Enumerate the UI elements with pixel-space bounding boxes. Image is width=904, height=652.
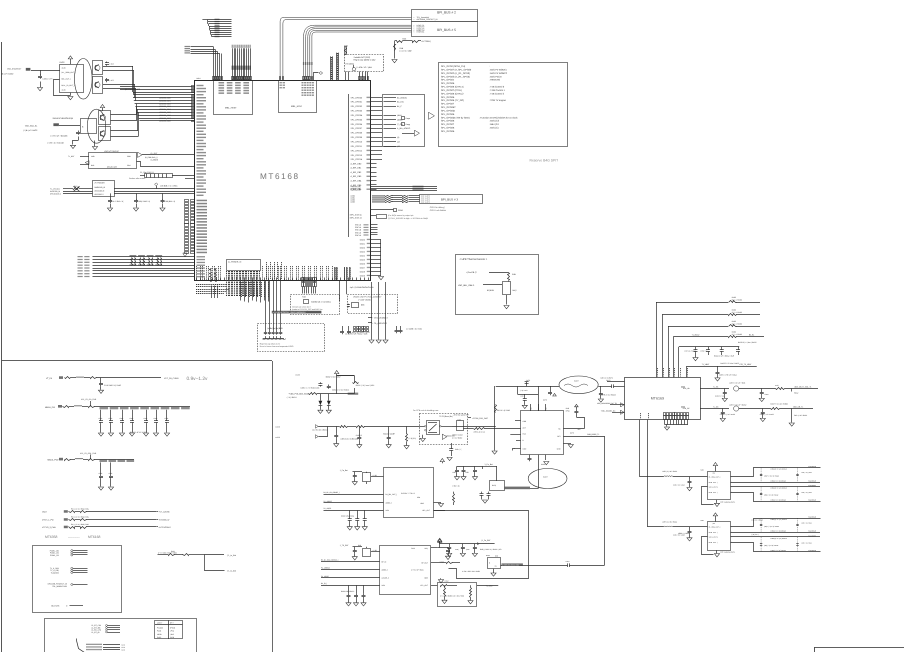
svg-text:B4G2 B ( 4 ( dxn ( B4G2: B4G2 B ( 4 ( dxn ( B4G2 <box>738 341 756 344</box>
svg-text:SPL_GPG0 (SPS4_CH(: SPL_GPG0 (SPS4_CH( <box>441 65 465 68</box>
svg-text:B4_CN): B4_CN) <box>397 101 404 104</box>
svg-text:SPL_GPG02: SPL_GPG02 <box>351 105 363 108</box>
svg-text:: T4B Control 2: : T4B Control 2 <box>489 92 505 95</box>
svg-text:VT_PA: VT_PA <box>46 377 53 380</box>
svg-text:For PCB end of shielding case: For PCB end of shielding case <box>413 409 439 412</box>
svg-text:SRCLA: SRCLA <box>355 234 362 237</box>
svg-text:L4B? ( / (2 / pF / B4G: L4B? ( / (2 / pF / B4G <box>729 381 746 384</box>
svg-text:+ VCC_AVDBA-2: + VCC_AVDBA-2 <box>372 316 388 319</box>
svg-text:GBG7: GBG7 <box>360 266 365 269</box>
svg-text:G4G?: G4G? <box>543 476 548 479</box>
svg-text:GBG1: GBG1 <box>360 242 365 245</box>
svg-text:TL_GB: TL_GB <box>713 405 719 408</box>
svg-text:wddd: wddd <box>275 436 280 439</box>
svg-text:SPL_GPG11: SPL_GPG11 <box>351 145 363 148</box>
svg-text:GAB_BGB2_TL: GAB_BGB2_TL <box>587 433 599 436</box>
svg-text:MMRGVB_W: MMRGVB_W <box>95 186 106 189</box>
svg-text:SPL_GPG04: SPL_GPG04 <box>441 79 455 82</box>
svg-text:BF3: BF3 <box>557 435 560 438</box>
svg-text:C4B( B60 / 4(: C4B( B60 / 4( <box>165 200 176 203</box>
svg-text:VTCXO_2_PMU: VTCXO_2_PMU <box>42 526 57 529</box>
svg-text:C4.6 / B60 / 4(: C4.6 / B60 / 4( <box>112 200 124 203</box>
svg-text:ANTENNA_CONTACT_IN: ANTENNA_CONTACT_IN <box>417 18 439 21</box>
svg-text:4Y4_YG_GBL_GVB: 4Y4_YG_GBL_GVB <box>80 452 97 455</box>
svg-text:R4G2: R4G2 <box>60 61 65 64</box>
svg-text:<: < <box>413 18 414 21</box>
svg-text:( / B4 / 4C: ( / B4 / 4C <box>452 485 460 488</box>
svg-text:MT6169: MT6169 <box>651 397 664 401</box>
svg-text:A_BPI_GB4: A_BPI_GB4 <box>351 180 363 183</box>
svg-text:G4G?: G4G? <box>574 380 579 383</box>
svg-text:A.GGB_B4_BG4_GG2: A.GGB_B4_BG4_GG2 <box>502 563 519 566</box>
svg-text:C4B ( / ( / 4 / B4G2 (4G: C4B ( / ( / 4 / B4G2 (4G <box>301 386 320 389</box>
svg-text:: B4G (C3: : B4G (C3 <box>489 120 500 123</box>
svg-text:B4 4.7L 4F 4C 4 TGF: B4 4.7L 4F 4C 4 TGF <box>130 431 148 434</box>
svg-text:B(AL_) B_OUT_): B(AL_) B_OUT_) <box>62 84 75 87</box>
svg-text:( 1_tx_bat: ( 1_tx_bat <box>227 569 236 572</box>
svg-text:AVDDGB_M: AVDDGB_M <box>95 190 105 193</box>
svg-text:B4G2 ( / 4( / (4G2: B4G2 ( / 4( / (4G2 <box>326 376 341 379</box>
svg-text:SPL_GPG0? (A_SPL_GPG60: SPL_GPG0? (A_SPL_GPG60 <box>441 68 472 71</box>
svg-text:BPI_BUS # 2: BPI_BUS # 2 <box>437 10 456 14</box>
svg-text:SPL_GPG0?: SPL_GPG0? <box>441 123 455 126</box>
svg-text:A_BPI_GB3: A_BPI_GB3 <box>351 175 363 178</box>
svg-text:LCBGB0_GB5: LCBGB0_GB5 <box>159 111 171 114</box>
svg-text:C4GB(2: C4GB(2 <box>356 434 362 437</box>
svg-text:M4(?: M4(? <box>513 289 517 292</box>
svg-text:SPL_GPG05: SPL_GPG05 <box>351 118 363 121</box>
svg-text:-NEW_4( 04 )-4: -NEW_4( 04 )-4 <box>473 430 485 433</box>
svg-text:MT6168: MT6168 <box>260 172 300 181</box>
svg-text:1_Fa_Bat: 1_Fa_Bat <box>485 463 494 466</box>
svg-text:(42: (42 <box>397 145 400 148</box>
svg-text:-----------: ----------- <box>68 535 80 539</box>
svg-text:SPL_GPG0B: SPL_GPG0B <box>441 82 455 85</box>
svg-text:Regrta cap (4GB( to (4Q: Regrta cap (4GB( to (4Q <box>354 58 376 61</box>
svg-text:POWL_CB: POWL_CB <box>50 554 60 557</box>
svg-text:GBA_GB_TL_B4L_TL: GBA_GB_TL_B4L_TL <box>794 385 811 388</box>
svg-text:SPL_GPG0B: SPL_GPG0B <box>441 120 455 123</box>
svg-text:GBG8: GBG8 <box>360 270 365 273</box>
svg-text:MBGA_PW: MBGA_PW <box>45 406 55 409</box>
svg-text:TL_HB: TL_HB <box>713 385 719 388</box>
svg-text:MTCXOCM-2: MTCXOCM-2 <box>50 192 61 195</box>
svg-text:Here to have clear and separat: Here to have clear and separated GND <box>260 345 294 348</box>
svg-text:B4G(: B4G( <box>492 484 496 487</box>
svg-text:4 / 4 / 4bn B4B2 (.(2 / 4bn /: 4 / 4 / 4bn B4B2 (.(2 / 4bn / B4G <box>440 594 465 597</box>
svg-text:4Y4_YG_GA_GVB: 4Y4_YG_GA_GVB <box>81 398 97 401</box>
svg-text:: Reserved: : Reserved <box>489 79 501 82</box>
svg-text:(B / pF / B4G2: (B / pF / B4G2 <box>1 73 13 76</box>
svg-text:: T4B Control 0: : T4B Control 0 <box>489 86 505 89</box>
svg-text:+CTRM_PVB_OWT: +CTRM_PVB_OWT <box>472 417 489 420</box>
svg-text:(* LDO VGGB): (* LDO VGGB) <box>358 298 371 301</box>
svg-text:+(CxxGB-(?: +(CxxGB-(? <box>466 271 478 274</box>
svg-text:MTKDBG4PORTAL_GBKR_BBGBKR4: MTKDBG4PORTAL_GBKR_BBGBKR4 <box>273 311 306 314</box>
svg-text:TBL_MWBVGYB2: TBL_MWBVGYB2 <box>52 585 67 588</box>
svg-text:GBG3: GBG3 <box>360 250 365 253</box>
svg-text:: T4W Control 1: : T4W Control 1 <box>489 89 505 92</box>
svg-text:GBG2: GBG2 <box>360 246 365 249</box>
svg-text:MPU_EINT4A: MPU_EINT4A <box>350 213 363 216</box>
svg-text:MILGVHB: MILGVHB <box>51 604 60 607</box>
svg-text:SPL_GPG08: SPL_GPG08 <box>351 132 363 135</box>
svg-text:SPL_GPG0B?: SPL_GPG0B? <box>441 106 456 109</box>
svg-text:SPL_GPG0B: SPL_GPG0B <box>441 96 455 99</box>
svg-text:MBGA_PW2: MBGA_PW2 <box>48 459 59 462</box>
svg-text:SPAD: SPAD <box>398 209 404 212</box>
svg-text:BPI_BUS # 3: BPI_BUS # 3 <box>441 197 458 201</box>
svg-text:SPL_GPG0(D: SPL_GPG0(D <box>441 110 456 113</box>
svg-text:( 4 ( B ( dxn ( B4G2: ( 4 ( B ( dxn ( B4G2 <box>312 428 328 431</box>
svg-text:: B4G P4 WOBC2: : B4G P4 WOBC2 <box>489 72 508 75</box>
svg-text:(P3GB: (P3GB <box>170 626 176 629</box>
svg-text:C4B (2( 4( / 4( B4G2(B: C4B (2( 4( / 4( B4G2(B <box>340 437 359 440</box>
svg-text:SPL_GPG06: SPL_GPG06 <box>351 123 363 126</box>
svg-text:+VTCXOGB-2: +VTCXOGB-2 <box>159 526 171 529</box>
svg-text:LCBGB0_GB2: LCBGB0_GB2 <box>159 102 171 105</box>
svg-text:Reduce after restart: Reduce after restart <box>129 177 146 180</box>
svg-text:L4B? ( ( (2 / pF / B4G2: L4B? ( ( (2 / pF / B4G2 <box>729 403 746 406</box>
svg-text:LCBGB0_GB8: LCBGB0_GB8 <box>159 120 171 123</box>
svg-text:TL(A(GB4: TL(A(GB4 <box>51 571 59 574</box>
svg-text:Gapg: Gapg <box>406 123 410 126</box>
svg-text:+ TA_ANTAGG2: + TA_ANTAGG2 <box>372 322 388 325</box>
svg-text:GBG6: GBG6 <box>360 262 365 265</box>
svg-text:MCBGB_GB): MCBGB_GB) <box>351 189 362 192</box>
svg-text:P4B2: P4B2 <box>157 636 161 639</box>
svg-text:( 4C2: ( 4C2 <box>110 79 114 82</box>
svg-text:MBL_6Y62: MBL_6Y62 <box>291 105 303 108</box>
svg-text:C4.6 / B60 / 4( / B4G: C4.6 / B60 / 4( / B4G <box>104 384 122 387</box>
svg-text:SPL_GPG04: SPL_GPG04 <box>351 114 363 117</box>
svg-text:R4G2 ( / 4( / xxx / (4G2: R4G2 ( / 4( / xxx / (4G2 <box>356 384 375 387</box>
svg-text:R4G 4 / 4( / B4G: R4G 4 / 4( / B4G <box>497 409 511 412</box>
svg-text:HC2: HC2 <box>523 433 526 436</box>
svg-text:(x(Bx(Bx(Bx(BxB: (x(Bx(Bx(Bx(BxB <box>268 327 284 330</box>
svg-text:C6B B6B.2 / 4 / A7MG: C6B B6B.2 / 4 / A7MG <box>160 185 178 188</box>
svg-text:4pF / (140/MHOMOHON4 B: 4pF / (140/MHOMOHON4 B <box>350 286 374 289</box>
svg-text:1_Fa_Bat: 1_Fa_Bat <box>340 469 348 472</box>
svg-text:(TB (BGG: (TB (BGG <box>346 62 355 65</box>
svg-text:( / 4( (40(: ( / 4( (40( <box>409 437 417 440</box>
svg-text:( 1_tx_bat: ( 1_tx_bat <box>227 554 236 557</box>
svg-text:C4TB 4 / 4( / B4G2: C4TB 4 / 4( / B4G2 <box>601 393 616 396</box>
svg-text:LCBGB0_GB7: LCBGB0_GB7 <box>159 117 171 120</box>
svg-text:: BB4 (C4: : BB4 (C4 <box>489 123 500 126</box>
svg-text:SPL_GPG12: SPL_GPG12 <box>351 149 363 152</box>
svg-text:SPL_GPG09: SPL_GPG09 <box>351 136 363 139</box>
svg-text:BPI_BUS # 5: BPI_BUS # 5 <box>437 28 456 32</box>
svg-text:SRCLB: SRCLB <box>355 229 362 232</box>
svg-text:VBG_GBA_BL: VBG_GBA_BL <box>25 124 37 127</box>
svg-text:+VT_AVDHB: +VT_AVDHB <box>159 511 171 514</box>
svg-text:B4G R / 4 ( dxn 7GB(G: B4G R / 4 ( dxn 7GB(G <box>771 402 789 405</box>
svg-text:( 4C2: ( 4C2 <box>110 63 114 66</box>
svg-text:A_BPI_GB2: A_BPI_GB2 <box>351 171 363 174</box>
svg-text:VBG_BBL_GB4 D: VBG_BBL_GB4 D <box>458 284 475 287</box>
svg-text:(1 / 4(BB / 4C / B4G: (1 / 4(BB / 4C / B4G <box>406 328 423 331</box>
svg-text:SPL_GPG0B (CTRL(2: SPL_GPG0B (CTRL(2 <box>441 92 464 95</box>
svg-text:SPL_GPG0(B (The by GND): SPL_GPG0(B (The by GND) <box>441 116 470 119</box>
svg-text:(For IRQ# source by output pin: (For IRQ# source by output pin <box>388 214 413 217</box>
svg-text:+CXOGB_W: +CXOGB_W <box>159 519 170 522</box>
svg-text:SPL_GPG03 (A_(PL_GPG0): SPL_GPG03 (A_(PL_GPG0) <box>441 75 470 78</box>
svg-text:LCBGB0_GB1: LCBGB0_GB1 <box>159 99 171 102</box>
svg-text:( / (B / pF / B4G2: ( / (B / pF / B4G2 <box>23 129 37 132</box>
svg-text:: Function as DRC24C04A for co: : Function as DRC24C04A for co-clock <box>479 116 518 119</box>
svg-text:SPL_GPG0B: SPL_GPG0B <box>441 127 455 130</box>
svg-text:SPL_GPG13: SPL_GPG13 <box>351 154 363 157</box>
svg-text:: B4G (C): : B4G (C) <box>489 127 499 130</box>
svg-text:SPL_GPG14: SPL_GPG14 <box>351 158 363 161</box>
svg-text:( / (TB / 4C / B4G2(B: ( / (TB / 4C / B4G2(B <box>47 142 64 145</box>
svg-text:B4_C: B4_C <box>397 105 402 108</box>
svg-text:+VBB_PVB_BB2_GB4G: +VBB_PVB_BB2_GB4G <box>289 393 310 396</box>
svg-text:: B4G P4CN: : B4G P4CN <box>489 75 502 78</box>
svg-text:GBG0: GBG0 <box>360 238 365 241</box>
svg-text:GBG9: GBG9 <box>360 274 365 277</box>
svg-text:(4): (4) <box>397 136 400 139</box>
svg-text:BBL_OUT_): BBL_OUT_) <box>62 78 72 81</box>
svg-text:( 4 / x7B5 / pF / B4G2 / C4B: ( 4 / x7B5 / pF / B4G2 / C4B <box>345 333 368 336</box>
svg-text:< HFE Thermal Sensor >: < HFE Thermal Sensor > <box>460 258 488 261</box>
svg-text:SPL_GPG10: SPL_GPG10 <box>351 141 363 144</box>
svg-text:C4B2 ( / ( / 4( / B4G2: C4B2 ( / ( / 4( / B4G2 <box>332 388 349 391</box>
svg-text:GB4: GB4 <box>127 164 130 167</box>
svg-text:LCBGB4_GB4: LCBGB4_GB4 <box>159 108 171 111</box>
svg-text:TP-D?(Bxxx (Bx(: TP-D?(Bxxx (Bx( <box>439 415 453 418</box>
svg-text:MT6358: MT6358 <box>45 535 58 539</box>
svg-text:(*) PULL_BYPASS to high --> 50: (*) PULL_BYPASS to high --> 50 20kHz to … <box>388 217 429 220</box>
svg-text:wvdd: wvdd <box>295 373 300 376</box>
svg-text:MBL_HO6T: MBL_HO6T <box>225 107 237 110</box>
svg-text:SPL_GPG02 (A_(PL_GPG0): SPL_GPG02 (A_(PL_GPG0) <box>441 72 470 75</box>
svg-text:(4 / 4( / B4G2: (4 / 4( / B4G2 <box>452 436 462 439</box>
svg-text:SPL_GPG03: SPL_GPG03 <box>351 110 363 113</box>
svg-text:( / 4GB / 4C / (4B4: ( / 4GB / 4C / (4B4 <box>356 66 372 69</box>
svg-text:SPL_GPG0? (CTRL(: SPL_GPG0? (CTRL( <box>441 89 462 92</box>
svg-text:A_BPI_GB1: A_BPI_GB1 <box>351 167 363 170</box>
svg-text:LCBGB0_GB3: LCBGB0_GB3 <box>159 105 171 108</box>
svg-text:VCC_PA_CONN: VCC_PA_CONN <box>164 377 179 380</box>
svg-text:4L_POWER_IN: 4L_POWER_IN <box>228 261 242 264</box>
svg-text:Gapa: Gapa <box>406 117 410 120</box>
svg-text:MPU_EINT_B: MPU_EINT_B <box>350 216 363 219</box>
svg-text:C4B( / B4G / 4(: C4B( / B4G / 4( <box>138 200 150 203</box>
svg-text:( ) (4 / 4 / (402: ( ) (4 / 4 / (402 <box>400 50 412 53</box>
svg-text:(AL_) BBB_OUT_): (AL_) BBB_OUT_) <box>62 71 76 74</box>
svg-text:(B_RBB (B4B_(): (B_RBB (B4B_() <box>145 156 158 159</box>
svg-text:BF(BGB: BF(BGB <box>487 289 495 292</box>
svg-text:CL_RST: CL_RST <box>151 152 159 155</box>
svg-text:AVDGDR-2: AVDGDR-2 <box>95 193 104 196</box>
svg-text:CL_BT_(B: CL_BT_(B <box>91 631 100 634</box>
svg-text:(*BAST_SWT*V VVC(_AVDBPA?: (*BAST_SWT*V VVC(_AVDBPA? <box>353 295 381 298</box>
svg-text:HSNR_B1: HSNR_B1 <box>417 31 425 34</box>
svg-text:VBG_KHA/DVGT: VBG_KHA/DVGT <box>7 68 22 71</box>
svg-text:: B4G P4 WODE): : B4G P4 WODE) <box>489 68 507 71</box>
svg-text:B4GB2 (2( 4 / 4( B4GL): B4GB2 (2( 4 / 4( B4GL) <box>311 300 331 303</box>
svg-text:( 1_Fa_BAT: ( 1_Fa_BAT <box>481 539 491 542</box>
svg-text:SN7/G4 ? / TG / G: SN7/G4 ? / TG / G <box>401 492 416 495</box>
svg-text:(.B42: (.B42 <box>170 633 174 636</box>
svg-text:TL_B4G2: TL_B4G2 <box>692 333 700 336</box>
svg-text:SPL_GPG0?: SPL_GPG0? <box>441 103 455 106</box>
svg-text:MT6168: MT6168 <box>88 535 101 539</box>
svg-text:B ) ( 4 / B4G2: B ) ( 4 / B4G2 <box>732 298 742 301</box>
svg-text:0.9v~1.2v: 0.9v~1.2v <box>187 376 209 382</box>
svg-text:B4G2 R / 2 / 4bn / B4G2: B4G2 R / 2 / 4bn / B4G2 <box>721 362 739 365</box>
svg-text:GBG4: GBG4 <box>360 254 365 257</box>
svg-text:( / (TB / pF / B4G2(B: ( / (TB / pF / B4G2(B <box>51 135 69 138</box>
svg-text:B ) ( 4 / B4G2: B ) ( 4 / B4G2 <box>732 322 742 325</box>
svg-text:SPL_GPG0B: SPL_GPG0B <box>441 113 455 116</box>
svg-text:PG4GB: PG4GB <box>157 626 164 629</box>
svg-text:+BBL_MG4/B2_BC: +BBL_MG4/B2_BC <box>601 409 616 412</box>
svg-text:SRCLK: SRCLK <box>355 224 362 227</box>
svg-text:BF #: BF # <box>170 622 174 625</box>
svg-text:LCBGB0_GB0: LCBGB0_GB0 <box>159 97 171 100</box>
svg-text:(.PG(: (.PG( <box>170 630 174 633</box>
svg-text:VBAT: VBAT <box>42 511 48 514</box>
svg-text:GPIO Luck Bubba: GPIO Luck Bubba <box>430 209 447 212</box>
svg-text:(43: (43 <box>397 141 400 144</box>
svg-text:1_TX_BAT: 1_TX_BAT <box>340 544 350 547</box>
svg-text:SPL_GPG0B (CTRL4(: SPL_GPG0B (CTRL4( <box>441 86 464 89</box>
svg-text:GBG5: GBG5 <box>360 258 365 261</box>
svg-text:U4/B #: U4/B # <box>157 622 162 625</box>
svg-text:wddb: wddb <box>275 425 280 428</box>
svg-text:( / 4( / B4G2: ( / 4( / B4G2 <box>287 396 297 399</box>
svg-text:UBB3: UBB3 <box>351 201 355 204</box>
svg-text:A_BPI_GB0: A_BPI_GB0 <box>351 162 363 165</box>
svg-text:B4_WODE): B4_WODE) <box>397 96 407 99</box>
svg-text:SRCGBB_POWVGY_IN: SRCGBB_POWVGY_IN <box>48 582 68 585</box>
svg-text:SHB.KSCHR-BTAGD(B: SHB.KSCHR-BTAGD(B <box>53 117 74 120</box>
svg-text:TL_VBAT: TL_VBAT <box>702 363 710 366</box>
svg-text:TL_BGT: TL_BGT <box>68 155 74 158</box>
svg-text:B ) ( 4 / B4G2: B ) ( 4 / B4G2 <box>732 311 742 314</box>
svg-text:<: < <box>413 32 414 34</box>
svg-text:(4BB2 / C4G2: (4BB2 / C4G2 <box>452 433 463 436</box>
svg-text:SPL_GPG0B: SPL_GPG0B <box>441 130 455 133</box>
svg-text:: T0W TV engine: : T0W TV engine <box>489 99 507 102</box>
svg-text:2Y POWER: 2Y POWER <box>95 182 106 185</box>
svg-text:SPL_GPG01: SPL_GPG01 <box>351 101 363 104</box>
svg-text:LCBGB0_GB6: LCBGB0_GB6 <box>159 114 171 117</box>
svg-text:R4G: R4G <box>402 38 406 41</box>
svg-text:Reserve B4G SPI?: Reserve B4G SPI? <box>530 159 559 163</box>
svg-text:B4_BL: B4_BL <box>749 333 754 336</box>
svg-text:SPL_GPG0B (TY_DO(: SPL_GPG0B (TY_DO( <box>441 99 464 102</box>
svg-text:Express cap show to IC: Express cap show to IC <box>260 342 281 345</box>
svg-text:(make to DYGXTA_OFF and B4G Vc: (make to DYGXTA_OFF and B4G Vcc <box>292 308 323 311</box>
svg-text:SPL_GPG07: SPL_GPG07 <box>351 127 363 130</box>
svg-text:C4B2 ( / (T? /: C4B2 ( / (T? / <box>42 77 53 80</box>
svg-text:C4B ( / (: C4B ( / ( <box>455 448 462 451</box>
svg-text:SPL_GPG00: SPL_GPG00 <box>351 96 363 99</box>
svg-text:CTR_TX_VBAT: CTR_TX_VBAT <box>739 363 752 366</box>
svg-text:ANT: ANT <box>523 426 526 429</box>
svg-text:MTCX_1_PW: MTCX_1_PW <box>42 519 54 522</box>
svg-text:GPIO for debug (: GPIO for debug ( <box>430 206 446 209</box>
svg-text:GBA_GB_TL: GBA_GB_TL <box>793 405 803 408</box>
svg-text:A_(BA_4GBGG: A_(BA_4GBGG <box>397 127 411 130</box>
svg-text:B ) ( 4 / B4G2: B ) ( 4 / B4G2 <box>732 333 742 336</box>
svg-text:B4G4( / (4GB?: B4G4( / (4GB? <box>383 433 395 436</box>
svg-text:A-C?RBL): A-C?RBL) <box>422 40 431 43</box>
svg-text:-(For the same HB?: -(For the same HB? <box>453 413 469 416</box>
